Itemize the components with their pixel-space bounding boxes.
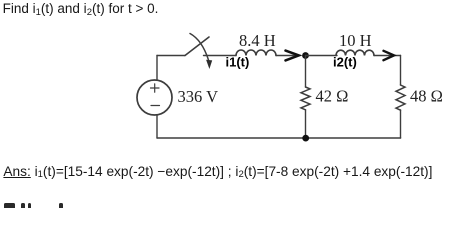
inductor L2 value label 10 H (339, 31, 372, 50)
wire middle branch upper (305, 56, 307, 88)
wire top-left horizontal (157, 55, 185, 57)
wire source bottom to bottom-left corner (156, 115, 158, 138)
current arrow i2(t) (384, 51, 395, 60)
svg-text:8.4 H: 8.4 H (239, 31, 276, 50)
inductor L1 value label 8.4 H (239, 31, 276, 50)
svg-text:336 V: 336 V (178, 87, 219, 106)
title text (3, 1, 159, 16)
wire L2 to right corner (374, 55, 401, 57)
resistor R1 value 42 ohm (316, 87, 349, 106)
wire switch to L1 (204, 55, 237, 57)
wire middle branch lower (305, 110, 307, 138)
clipped next problem heading "Problem 1" (only letter tops visible) (4, 203, 15, 208)
wire right branch upper (400, 56, 402, 86)
svg-text:10 H: 10 H (339, 31, 372, 50)
current label i2(t) (333, 55, 357, 70)
node A junction dot (302, 52, 309, 59)
voltage source V1 circle (137, 80, 172, 115)
resistor R2 value 48 ohm (410, 87, 443, 106)
resistor R1 zigzag 42 ohm (301, 87, 310, 110)
wire node A to L2 (306, 55, 338, 57)
node B bottom junction dot (302, 135, 309, 142)
resistor R2 zigzag 48 ohm (396, 85, 405, 110)
switch S1 blade (185, 37, 209, 56)
voltage source minus sign (151, 105, 160, 107)
svg-text:48 Ω: 48 Ω (410, 87, 443, 106)
svg-text:i1(t): i1(t) (226, 55, 250, 70)
wire L1 to node A (276, 55, 300, 57)
voltage source value 336 V (178, 87, 219, 106)
wire bottom horizontal (157, 137, 401, 139)
inductor L2 coil (336, 50, 374, 55)
switch S1 closing arrow (190, 34, 212, 70)
wire left vertical (156, 56, 158, 81)
wire right branch lower (400, 110, 402, 138)
svg-text:i2(t): i2(t) (333, 55, 357, 70)
answer text line (3, 164, 432, 179)
current arrow i1(t) (286, 51, 299, 61)
svg-text:42 Ω: 42 Ω (316, 87, 349, 106)
voltage source plus sign (151, 84, 160, 92)
current label i1(t) (226, 55, 250, 70)
inductor L1 coil (236, 50, 276, 56)
